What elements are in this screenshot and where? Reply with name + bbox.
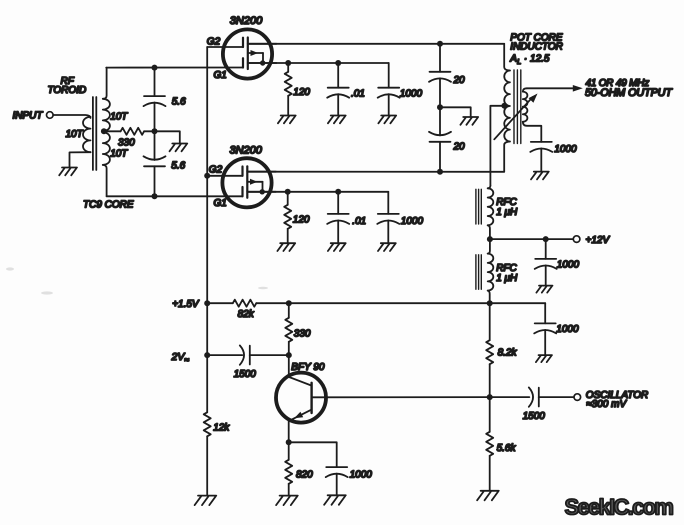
scan speckles xyxy=(6,267,268,294)
node +1.5V on bias line xyxy=(204,300,210,306)
ground (.01 FET2) xyxy=(328,243,346,251)
ground (input primary) xyxy=(59,168,77,176)
wire input to transformer primary xyxy=(53,115,90,118)
svg-text:3N200: 3N200 xyxy=(230,15,263,27)
svg-text:.01: .01 xyxy=(351,88,365,99)
wire node to ground stub xyxy=(155,131,180,143)
svg-text:G1: G1 xyxy=(214,198,227,209)
svg-text:5.6: 5.6 xyxy=(171,160,185,171)
ground (1000 +12V) xyxy=(536,286,552,293)
ground (.01 FET1) xyxy=(328,116,346,124)
svg-text:330: 330 xyxy=(294,328,311,339)
ground (20pF node) xyxy=(460,117,478,125)
svg-text:SeekIC.com: SeekIC.com xyxy=(565,495,674,520)
wire 1500 to oscillator terminal xyxy=(539,396,574,398)
svg-text:G2: G2 xyxy=(209,164,223,175)
node: top rail / 5.6 cap xyxy=(152,65,158,71)
capacitor .01 (FET1) xyxy=(337,63,339,88)
resistor 330 (centre tap) xyxy=(121,128,145,135)
3N200 drain lead xyxy=(248,43,277,45)
capacitor 1500 (bias) xyxy=(240,345,250,364)
svg-text:G1: G1 xyxy=(214,70,227,81)
wire 330 to node xyxy=(144,130,154,132)
svg-text:120: 120 xyxy=(293,87,310,98)
wire 20pF node to ground xyxy=(440,107,471,117)
ground (330 node) xyxy=(170,144,188,152)
svg-text:820: 820 xyxy=(296,469,313,480)
ground (120 FET2) xyxy=(277,243,295,251)
wire base node to 1500 osc cap xyxy=(490,396,530,398)
capacitor 1000 (pot core secondary) xyxy=(530,142,552,152)
svg-text:10T: 10T xyxy=(110,149,128,160)
svg-text:20: 20 xyxy=(453,141,466,152)
capacitor 20 (top) xyxy=(439,44,441,72)
svg-text:3N200: 3N200 xyxy=(230,145,263,157)
svg-text:5.6: 5.6 xyxy=(172,96,186,107)
capacitor 5.6 (bottom) xyxy=(154,131,156,160)
svg-text:1000: 1000 xyxy=(556,324,579,335)
wire FET1 source rail xyxy=(248,62,389,64)
wire FET2 source rail xyxy=(247,191,388,193)
BFY90 collector diagonal xyxy=(289,377,312,386)
capacitor 1000 (emitter) xyxy=(326,467,348,477)
svg-text:50-OHM OUTPUT: 50-OHM OUTPUT xyxy=(585,87,673,99)
node source/.01 xyxy=(335,60,341,66)
resistor 82k xyxy=(233,300,256,307)
node base/8.2k/5.6k/1500 xyxy=(487,394,493,400)
3N200 gate bars xyxy=(241,167,243,176)
wire transformer bottom to FET2 G1 xyxy=(107,195,243,197)
3N200 substrate arrow xyxy=(247,181,262,183)
svg-text:1500: 1500 xyxy=(523,411,546,422)
svg-text:TOROID: TOROID xyxy=(48,85,87,96)
svg-text:120: 120 xyxy=(293,214,310,225)
svg-text:1000: 1000 xyxy=(401,216,424,227)
inductor RFC 1uH (bottom) xyxy=(488,239,490,254)
capacitor 5.6 (top) xyxy=(154,68,156,97)
node source/.01 (FET2) xyxy=(335,189,341,195)
node emitter junction xyxy=(286,439,292,445)
svg-text:1000: 1000 xyxy=(554,144,577,155)
transformer T1 secondary bottom winding 10T xyxy=(103,132,110,165)
svg-text:1000: 1000 xyxy=(400,88,423,99)
capacitor 20 (bottom) xyxy=(439,107,441,135)
resistor 5.6k xyxy=(489,397,491,432)
wire centre tap to resistor 330 xyxy=(104,130,121,132)
wire primary bottom to FET2 drain rail xyxy=(504,142,510,172)
BFY90 base bar xyxy=(310,383,312,413)
node primary centre tap xyxy=(501,103,507,109)
svg-text:8.2k: 8.2k xyxy=(498,347,518,358)
ground (1000 FET2) xyxy=(378,243,396,251)
ground (1000 pot core) xyxy=(531,172,549,180)
resistor 120 (FET2 source) xyxy=(287,192,289,205)
ground (5.6k) xyxy=(477,491,499,501)
capacitor 1000 (FET2) xyxy=(387,192,389,214)
resistor 330 (collector) xyxy=(288,303,290,318)
RFC1 core lines xyxy=(475,189,477,224)
svg-text:330: 330 xyxy=(118,137,135,148)
wire emitter to 1000 cap xyxy=(289,442,337,467)
node substrate-source dot xyxy=(260,189,265,194)
svg-text:10T: 10T xyxy=(110,111,128,122)
node substrate-source dot xyxy=(260,60,265,65)
svg-text:INPUT: INPUT xyxy=(13,111,44,122)
svg-text:.01: .01 xyxy=(352,216,366,227)
+12V terminal xyxy=(573,236,580,243)
node: 5.6/5.6/330 junction xyxy=(152,128,158,134)
node between 20pF caps xyxy=(437,104,443,110)
wire 1500 to base node xyxy=(250,354,289,356)
ground (12k) xyxy=(195,496,217,506)
node FET2 G2 junction xyxy=(204,173,210,179)
wire collector stem xyxy=(288,355,290,377)
pot core secondary winding xyxy=(523,88,527,91)
wire 2V node to 1500 cap xyxy=(207,354,242,356)
3N200 substrate arrow xyxy=(248,52,263,54)
ground (120 FET1) xyxy=(278,116,296,124)
svg-text:1500: 1500 xyxy=(234,369,257,380)
svg-text:+12V: +12V xyxy=(586,235,611,246)
node 2V on bias line xyxy=(204,352,210,358)
wire transformer top to FET1 G1 xyxy=(106,67,243,69)
node 82k/330 xyxy=(286,300,292,306)
transformer T1 secondary top winding 10T xyxy=(103,68,107,99)
ground (1000 emitter) xyxy=(324,495,346,505)
BFY90 emitter diagonal with arrow xyxy=(289,410,312,421)
node source/120 (FET2) xyxy=(285,189,291,195)
svg-text:1000: 1000 xyxy=(557,260,580,271)
node: secondary centre tap xyxy=(101,128,107,134)
node RFC2 / 8.2k rail xyxy=(487,300,493,306)
pot core: core lines xyxy=(513,70,515,144)
ground (820) xyxy=(276,496,298,506)
ground (1000 rail) xyxy=(536,355,552,362)
svg-text:10T: 10T xyxy=(66,129,84,140)
resistor 120 (FET1 source) xyxy=(287,63,289,72)
svg-text:20: 20 xyxy=(453,75,466,86)
+12V rail xyxy=(490,238,573,240)
3N200 drain lead xyxy=(247,171,276,173)
svg-text:1 μH: 1 μH xyxy=(496,273,518,284)
svg-text:12k: 12k xyxy=(213,423,230,434)
svg-text:5.6k: 5.6k xyxy=(497,443,517,454)
3N200 source lead xyxy=(248,62,277,64)
capacitor 1000 (+12V) xyxy=(545,239,547,259)
resistor 12k xyxy=(204,412,211,436)
wire drain rail corner into pot core primary xyxy=(504,44,510,71)
transistor 3N200 MOSFET circle at 247.0,182.8 xyxy=(222,158,271,207)
capacitor 1000 (supply rail) xyxy=(544,303,546,323)
tuning arrow through pot core xyxy=(494,97,532,139)
transformer T1 core xyxy=(92,97,94,170)
node source/120 xyxy=(285,60,291,66)
svg-text:+1.5V: +1.5V xyxy=(172,299,200,310)
capacitor 1500 (oscillator) xyxy=(529,387,539,406)
wire primary bottom to ground xyxy=(70,152,91,167)
ground (1000 FET1) xyxy=(378,116,396,124)
BFY90 base lead xyxy=(312,396,490,398)
transformer T1 primary winding 10T xyxy=(83,117,91,152)
wire FET2 drain rail xyxy=(247,171,504,173)
svg-text:82k: 82k xyxy=(238,309,255,320)
wire FET2 G2 xyxy=(207,175,242,177)
wire centre tap to RFC xyxy=(490,106,504,186)
svg-text:AL · 12.5: AL · 12.5 xyxy=(509,53,550,66)
wire G2 bias vertical line xyxy=(206,47,208,412)
wire rail to RFC2/8.2k node xyxy=(289,302,545,304)
3N200 source lead xyxy=(247,191,276,193)
3N200 gate bars xyxy=(242,38,244,47)
wire FET1 G2 xyxy=(207,46,243,48)
transistor 3N200 MOSFET circle at 247.5,54.0 xyxy=(223,29,272,78)
wire +1.5V to 82k xyxy=(207,302,233,304)
svg-text:INDUCTOR: INDUCTOR xyxy=(510,42,563,53)
inductor RFC 1uH (top) xyxy=(488,186,491,189)
capacitor .01 (FET2) xyxy=(337,192,339,214)
node drain rail / 20pF xyxy=(437,41,443,47)
transistor BFY 90 circle xyxy=(276,373,326,423)
wire 82k to 330 node xyxy=(256,302,289,304)
capacitor 1000 (FET1) xyxy=(388,63,390,88)
wire emitter stem xyxy=(288,421,290,442)
output line with arrow xyxy=(527,87,574,89)
RFC2 core lines xyxy=(475,255,477,289)
wire FET1 drain rail xyxy=(248,43,504,45)
svg-text:1 μH: 1 μH xyxy=(496,207,518,218)
svg-text:TC9 CORE: TC9 CORE xyxy=(83,200,134,211)
node +12V / 1000 xyxy=(543,236,549,242)
svg-text:1000: 1000 xyxy=(350,469,373,480)
3N200 channel xyxy=(246,166,248,198)
pot core inductor primary winding xyxy=(504,71,510,142)
node RFC1 / +12V rail xyxy=(487,236,493,242)
svg-text:G2: G2 xyxy=(207,36,221,47)
3N200 channel xyxy=(247,38,249,70)
node bottom drain rail / 20pF xyxy=(437,169,443,175)
resistor 8.2k xyxy=(489,303,491,340)
oscillator terminal xyxy=(574,394,581,401)
svg-text:≈300 mV: ≈300 mV xyxy=(586,399,627,410)
resistor 820 xyxy=(288,442,290,460)
node 330/1500/collector xyxy=(286,352,292,358)
input terminal xyxy=(47,112,54,119)
node: bottom rail / 5.6 cap xyxy=(152,193,158,199)
